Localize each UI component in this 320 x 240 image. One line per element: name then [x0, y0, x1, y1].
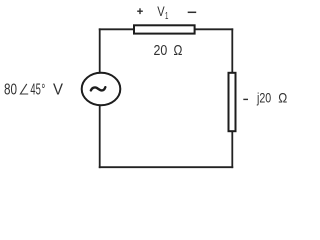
svg-text:V: V — [53, 81, 63, 98]
svg-text:45: 45 — [30, 81, 41, 98]
angle symbol of phasor — [20, 84, 28, 94]
svg-text:Ω: Ω — [174, 43, 183, 59]
label: 20 ohm value of R1 — [154, 43, 183, 59]
wire left vertical (node A down to source top) — [99, 28, 101, 75]
label: V1 — [157, 4, 168, 22]
svg-text:1: 1 — [165, 10, 168, 22]
wire right vertical (capacitor down to node D) — [231, 130, 233, 168]
svg-text:°: ° — [41, 81, 45, 98]
label: source value 80 angle 45 deg V — [4, 81, 63, 98]
resistor R1 (20 ohm, horizontal box) — [134, 25, 195, 33]
wire top: node A to node B — [99, 28, 233, 30]
svg-text:V: V — [157, 4, 164, 19]
label: -j20 ohm value of C1 — [243, 89, 287, 105]
wire right vertical (node B down to capacitor) — [231, 28, 233, 75]
label: minus polarity of V1 — [188, 11, 197, 13]
label: + polarity of V1 — [137, 8, 143, 14]
ac source VS (80 angle 45 V) — [82, 73, 121, 105]
wire bottom: node C to node D — [99, 166, 233, 168]
wire left vertical (source bottom down to node C) — [99, 104, 101, 168]
svg-text:j20: j20 — [256, 89, 271, 105]
svg-text:Ω: Ω — [278, 89, 287, 105]
capacitor C1 (-j20 ohm, vertical box) — [229, 73, 236, 131]
svg-text:20: 20 — [154, 43, 168, 59]
svg-text:80: 80 — [4, 81, 17, 98]
